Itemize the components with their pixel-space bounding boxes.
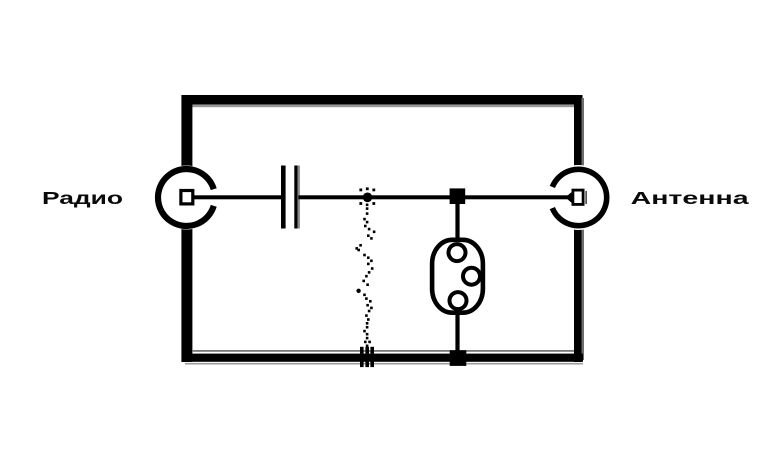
junction node: spark-gap tap star marker bbox=[359, 187, 375, 205]
connector X2 ring with left-side gap bbox=[552, 169, 606, 225]
enclosure box bottom border (ground bus) bbox=[182, 354, 583, 362]
enclosure box right border bbox=[574, 95, 582, 362]
arrester F1 top electrode circle bbox=[449, 244, 466, 261]
enclosure box top border inner gray line bbox=[192, 105, 574, 108]
capacitor C1 right plate gray shadow bbox=[298, 166, 300, 229]
capacitor C1 right plate bbox=[294, 166, 297, 229]
svg-text:Радио: Радио bbox=[42, 188, 123, 208]
ground bus thin line above bottom border bbox=[192, 350, 574, 352]
connector X2 center pin square bbox=[573, 190, 583, 204]
arrester F1 bottom electrode circle bbox=[450, 292, 467, 309]
wire taper wedge at connector X2 pin bbox=[568, 191, 574, 205]
capacitor C1 left plate bbox=[281, 166, 286, 229]
arrester F1 oval body bbox=[432, 240, 483, 313]
dotted squiggle bottom tick marks crossing ground bus bbox=[360, 347, 374, 367]
vertical wire: junction to arrester F1 and to ground bus bbox=[455, 196, 459, 356]
svg-text:Антенна: Антенна bbox=[631, 188, 749, 208]
enclosure box bottom border outer gray line bbox=[185, 363, 583, 365]
connector X1 (Радио) body white circle bbox=[155, 166, 219, 230]
connector X1 center pin square bbox=[181, 191, 193, 204]
wire: left connector pin to capacitor C1 left plate bbox=[194, 195, 282, 199]
connector X1 ring with right-side gap bbox=[158, 169, 214, 226]
connector X2 (Антенна) body white circle bbox=[546, 165, 611, 230]
enclosure box right border outer gray line bbox=[582, 98, 585, 360]
junction node square on main wire bbox=[450, 188, 466, 204]
junction node square on ground bus bbox=[450, 350, 467, 366]
enclosure box left border bbox=[181, 95, 192, 362]
enclosure box top border bbox=[183, 95, 583, 105]
arrester F1 right electrode circle bbox=[463, 268, 480, 285]
wire: capacitor C1 right plate to right connector pin bbox=[298, 195, 573, 199]
connector X2 outer shell gray line bbox=[585, 191, 587, 204]
dotted squiggle wire (spark path) bbox=[355, 204, 375, 348]
